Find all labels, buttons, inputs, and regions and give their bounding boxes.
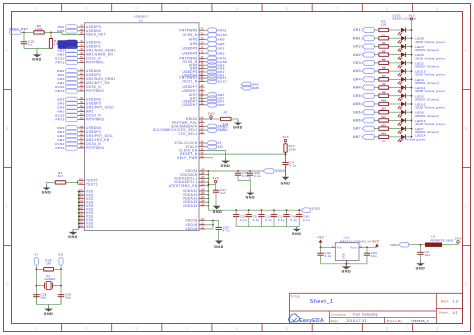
wire [208,183,216,185]
capacitor C2 [417,245,430,261]
svg-text:3V3: 3V3 [455,236,462,240]
pin USBDP4 of U1 [79,130,101,134]
svg-text:R7: R7 [224,111,228,115]
svg-text:GR5: GR5 [190,42,198,46]
node DP7 [205,99,225,104]
pin VDDA33 of U1 [183,189,205,193]
resistor R2 [379,35,389,45]
svg-text:AM5: AM5 [218,38,225,42]
ground [68,230,78,240]
svg-text:XO: XO [59,253,64,257]
svg-text:0.1u: 0.1u [254,174,261,178]
wire [24,49,51,53]
svg-text:GR5: GR5 [218,42,225,46]
wire [205,157,214,159]
pin RESET_N of U1 [180,152,204,156]
node GR5 [353,93,378,98]
svg-text:0.1u: 0.1u [265,218,272,222]
svg-text:B: B [465,126,469,131]
svg-text:1: 1 [35,326,38,331]
node GR1 [57,48,79,53]
svg-text:OCS7_N: OCS7_N [182,80,197,84]
svg-text:D: D [465,282,469,287]
node GR2 [353,44,378,49]
pin VDDA33 of U1 [183,197,205,201]
label LED10 [415,70,445,77]
svg-text:Drawn By:: Drawn By: [387,319,403,323]
pin PRTPWR1 of U1 [79,61,104,65]
svg-text:GND: GND [416,266,426,270]
pin USBDN7 of U1 [182,89,204,93]
pin GR6 of U1 [190,67,205,71]
svg-text:0.1u: 0.1u [303,218,310,222]
node XO [205,144,224,149]
node PRT7 [205,76,227,81]
svg-text:VBUS_DET: VBUS_DET [86,33,106,37]
power +3V3 [370,240,379,248]
pin USBDN6 of U1 [182,74,204,78]
LED D9 [389,93,412,101]
pin VDD33 of U1 [185,169,205,173]
svg-text:AM6: AM6 [353,119,361,123]
capacitor C20 [247,171,261,181]
svg-text:8: 8 [386,6,389,11]
node AM6 [205,63,225,68]
pin VDD18 of U1 [185,219,205,223]
svg-text:0805G (Green): 0805G (Green) [415,114,439,118]
wire [363,246,378,248]
pin GR5 of U1 [190,42,205,46]
LED D6 [389,69,412,77]
svg-text:USBDP5: USBDP5 [182,47,197,51]
node AM7 [353,134,378,139]
node SMBD [205,124,229,129]
svg-text:4u7: 4u7 [220,191,226,195]
svg-text:USBDN7: USBDN7 [182,103,197,107]
svg-text:3528 Yellow green: 3528 Yellow green [415,106,445,110]
node OCS3 [55,113,79,118]
capacitor C50 [364,247,378,263]
svg-text:0.1u: 0.1u [253,218,260,222]
power 3V3 [442,236,461,244]
pin SELF_PWR of U1 [177,156,204,160]
label LED14 [415,133,426,137]
node DM3 [57,97,79,102]
capacitor C26 [216,225,230,240]
label LED3 [415,45,439,52]
capacitor C19 [235,171,249,181]
label LED7 [415,127,439,134]
svg-text:DM6: DM6 [252,86,259,90]
pin OCS2_N of U1 [79,85,101,89]
svg-text:B: B [6,126,10,131]
LED D7 [389,77,412,85]
node AMJ [57,81,79,86]
pin GR4/PRT_DIS1 of U1 [79,134,113,138]
svg-text:2: 2 [85,326,88,331]
node DM0 [57,29,79,34]
pin VSS of U1 [79,193,94,197]
pin USBDP1 of U1 [79,45,101,49]
svg-text:2.2u: 2.2u [325,254,332,258]
svg-text:10u: 10u [371,254,377,258]
pin VSS of U1 [79,222,94,226]
regulator U11 [332,235,370,264]
resistor R4 [379,51,389,61]
node AM3 [353,69,378,74]
svg-text:PRTPWR3: PRTPWR3 [86,118,104,122]
svg-text:AIR5: AIR5 [189,38,198,42]
node PRT2 [55,89,79,94]
svg-text:GND: GND [42,190,52,194]
pin VDDA18PLL1 of U1 [174,180,205,184]
svg-text:100: 100 [381,141,386,143]
svg-text:0805G (Green): 0805G (Green) [415,48,439,52]
wire [66,181,79,185]
svg-text:OCS5: OCS5 [218,33,228,37]
wire [205,153,286,155]
node GR6 [205,66,225,71]
pin OCS7_N of U1 [182,80,204,84]
pin SCL/SMBCLK/CFG_SEL0 of U1 [153,128,205,132]
wire [36,265,62,304]
svg-text:GR5: GR5 [353,94,361,98]
pin CLKIN_EN of U1 [179,149,205,153]
svg-text:PRTPWR2: PRTPWR2 [86,89,104,93]
svg-text:ATEST/REG_EN: ATEST/REG_EN [169,184,198,188]
resistor R10 [379,101,389,111]
capacitor C46 [283,210,297,227]
selection highlight DM1/DP1 [58,40,74,49]
label LED2 [415,61,439,68]
node GR1 [353,28,378,33]
svg-text:20p: 20p [65,296,71,300]
wire [47,182,56,185]
wire [205,150,226,158]
LED1 label [393,14,417,21]
svg-text:GND: GND [281,182,291,186]
svg-text:AM1: AM1 [353,36,361,40]
svg-text:9: 9 [436,6,439,11]
power 3V3 [282,135,289,144]
svg-text:A: A [6,48,10,53]
node DM7 [205,103,225,108]
svg-text:100: 100 [381,23,387,27]
svg-text:7: 7 [336,326,339,331]
svg-text:4: 4 [185,326,188,331]
pin USBDP6 of U1 [182,70,204,74]
resistor R1 [379,28,389,31]
svg-text:2: 2 [85,6,88,11]
svg-text:PRTPWR5: PRTPWR5 [179,28,197,32]
svg-text:0805G (Green): 0805G (Green) [415,81,439,85]
node DP6 [241,82,259,87]
svg-text:VSS: VSS [86,225,94,229]
node AM1 [353,36,378,41]
resistor R14 [379,134,389,144]
svg-text:4k7: 4k7 [58,174,64,178]
svg-text:20p: 20p [40,296,46,300]
pin PRTPWR6 of U1 [179,57,204,61]
power 3V3 [212,176,219,190]
LED D8 [389,85,412,93]
svg-text:FERRITE 0603: FERRITE 0603 [431,238,454,242]
pin PRTPWR2 of U1 [79,89,104,93]
node DM2 [205,51,225,56]
LED D2 [389,36,412,44]
node AM2 [353,52,378,57]
pin PRTPWR4 of U1 [79,146,104,150]
node AM4 [353,85,378,90]
svg-text:3528 Yellow green: 3528 Yellow green [415,122,445,126]
svg-text:VDDA33: VDDA33 [183,204,198,208]
capacitor C28 [33,293,47,305]
capacitor C21 [213,188,227,206]
svg-text:D8 Yellow green: D8 Yellow green [400,138,426,142]
pin VBUS_DET of U1 [79,33,106,37]
svg-text:DM7: DM7 [218,103,225,107]
node GR4 [57,134,79,139]
pin USBDP7 of U1 [182,100,204,104]
svg-text:VDD0: VDD0 [390,243,399,247]
svg-text:CFG_SEL1: CFG_SEL1 [178,132,197,136]
svg-text:8: 8 [386,326,389,331]
svg-text:PRT2: PRT2 [55,89,64,93]
ground [42,185,52,194]
node DP2 [205,46,225,51]
wire [36,304,61,306]
pin USBDN4 of U1 [79,126,101,130]
EasyEDA logo [288,314,324,324]
resistor R6 [379,68,389,78]
node AM7 [205,93,225,98]
node AM5 [205,37,225,42]
node VDD0 [390,242,409,247]
node DM1 [57,40,79,45]
svg-text:1.0: 1.0 [452,300,458,304]
svg-text:PRT4: PRT4 [55,146,64,150]
svg-text:GND: GND [32,58,42,62]
pin VSS of U1 [79,215,94,219]
svg-text:GR7: GR7 [353,127,361,131]
pin USBDP0 of U1 [79,25,101,29]
node PRT1 [55,60,79,65]
node GR3 [57,105,79,110]
svg-text:1/1: 1/1 [452,311,458,315]
resistor R8 [379,84,389,94]
svg-text:Sheet_1: Sheet_1 [310,299,334,305]
pin PRTPWR5 of U1 [179,28,204,32]
svg-text:PRT5: PRT5 [218,28,227,32]
power +5V [317,236,324,248]
resistor R3 [379,43,389,53]
svg-text:SMBC: SMBC [218,128,229,132]
svg-text:9: 9 [436,326,439,331]
svg-text:GND: GND [342,253,346,259]
pin XTALI/CLKIN of U1 [174,141,204,145]
pin PRTPWR3 of U1 [79,118,104,122]
ground [292,227,302,236]
svg-text:3528 Yellow green: 3528 Yellow green [415,73,445,77]
svg-text:GND: GND [292,232,302,236]
svg-text:7: 7 [336,6,339,11]
node DM6 [241,85,259,90]
node DP2 [58,73,79,78]
pin USBDP3 of U1 [79,102,101,106]
svg-text:DM2: DM2 [218,51,225,55]
LED D14 [389,134,412,142]
node GR7 [205,96,225,101]
node DM1 [205,73,225,78]
wire [231,119,238,121]
pin TEST1 of U1 [79,182,98,186]
capacitor C36 [233,210,247,227]
resistor R7 [379,76,389,86]
svg-text:Company:: Company: [331,313,347,317]
svg-text:1: 1 [35,6,38,11]
ground [233,121,243,130]
node OCS5 [205,33,228,38]
svg-text:3: 3 [135,6,138,11]
svg-text:0.1u: 0.1u [242,174,249,178]
label LED6 [415,111,439,118]
svg-text:GR2: GR2 [353,45,361,49]
pin AIR5 of U1 [189,38,205,42]
node AMJ [57,109,79,114]
svg-text:GND: GND [221,164,231,168]
label LED11 [415,86,445,93]
ground [245,191,255,200]
LED D10 [389,102,412,110]
pin AMJ/MTT_EN of U1 [79,81,110,85]
svg-text:GR6: GR6 [353,110,361,114]
svg-text:100k: 100k [35,27,43,31]
svg-text:3528 Yellow green: 3528 Yellow green [415,56,445,60]
wire [409,244,425,246]
ground [341,264,351,274]
svg-text:0805G (Green): 0805G (Green) [393,17,417,21]
svg-text:Vout: Vout [350,245,357,249]
svg-text:4: 4 [185,6,188,11]
svg-text:OCS7: OCS7 [218,80,228,84]
svg-text:Sheet:: Sheet: [439,311,449,315]
pin OCS5_N of U1 [182,33,204,37]
wire [205,118,220,120]
node XO port [59,253,64,266]
svg-text:VDD18: VDD18 [185,227,197,231]
wire [73,191,80,230]
wire [44,32,79,35]
svg-text:VDD1: VDD1 [311,206,320,210]
svg-text:+5V: +5V [317,236,324,240]
label LED8 [415,37,445,44]
pin VDD18 of U1 [185,227,205,231]
node OCS4 [55,142,79,147]
svg-text:100k: 100k [289,148,297,152]
svg-text:3V3: 3V3 [212,176,219,180]
pin VSS of U1 [79,207,94,211]
svg-text:AM5: AM5 [353,102,361,106]
svg-text:C: C [5,204,9,209]
wire [320,246,332,248]
capacitor C17 [271,210,285,227]
node SMBC [205,128,229,133]
svg-text:AM4: AM4 [353,86,361,90]
svg-text:USBDN5: USBDN5 [182,51,197,55]
pin ATEST/REG_EN of U1 [169,184,205,188]
pin USBDN7 of U1 [182,103,204,107]
svg-text:0.1u: 0.1u [291,218,298,222]
capacitor C42 [317,247,331,263]
capacitor C12 [258,210,272,227]
resistor R12 [284,144,296,155]
pin VDD18 of U1 [185,223,205,227]
svg-text:10u: 10u [425,253,431,257]
node DP1 [58,44,79,49]
pin GR7 of U1 [190,96,205,100]
node GR2 [57,77,79,82]
svg-text:GND: GND [245,196,255,200]
svg-text:GR3: GR3 [353,61,361,65]
svg-text:24MHZ: 24MHZ [44,277,55,281]
pin OCS4_N of U1 [79,142,101,146]
svg-text:OCS5_N: OCS5_N [182,33,197,37]
node AMJ [57,52,79,57]
pin VDDA33PLL1 of U1 [174,177,205,181]
svg-text:5: 5 [235,6,238,11]
resistor R5 [379,60,389,70]
svg-text:GND: GND [44,312,54,316]
svg-text:3: 3 [135,326,138,331]
resistor R9 [34,24,45,34]
power 3V3 [208,111,215,119]
pin SDA/SMBDATA of U1 [171,125,205,129]
svg-text:Vin: Vin [337,245,342,249]
svg-text:1M: 1M [46,262,51,266]
svg-text:AM3: AM3 [353,69,361,73]
wire [236,226,299,228]
LED D13 [389,126,412,134]
label LED14 type [400,138,426,142]
svg-text:3528 Yellow green: 3528 Yellow green [415,89,445,93]
pin XTALO of U1 [185,145,204,149]
svg-text:0805G (Green): 0805G (Green) [415,97,439,101]
ground [214,241,224,249]
pin VSS of U1 [79,225,94,229]
svg-text:1u: 1u [28,43,32,47]
node GR5 [205,42,225,47]
svg-text:VDD0: VDD0 [275,169,285,173]
pin CFG_SEL1 of U1 [178,132,204,136]
pin OCS6_N of U1 [182,60,204,64]
node OCS1 [55,56,79,61]
pin PRTPWR_POL of U1 [172,121,205,125]
pin VDD33CR of U1 [180,173,205,177]
pin USBDN5 of U1 [182,51,204,55]
svg-text:AM7: AM7 [353,135,361,139]
capacitor C30 [58,293,72,305]
pin RBIAS of U1 [186,117,204,121]
ground [32,52,42,62]
title block [290,293,463,323]
capacitor C18 [21,32,35,48]
svg-text:REV:: REV: [441,300,450,304]
svg-text:2019-07-31: 2019-07-31 [347,319,367,323]
svg-text:0.1u: 0.1u [278,218,285,222]
node DP3 [58,101,79,106]
pin USBDN0 of U1 [79,29,101,33]
svg-text:+3V3: +3V3 [370,240,379,244]
